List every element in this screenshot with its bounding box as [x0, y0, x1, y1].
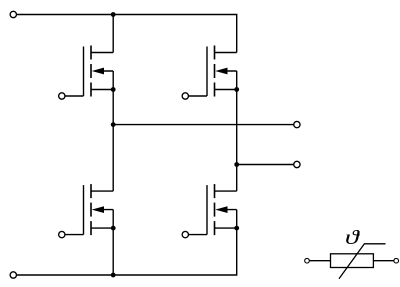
svg-text:ϑ: ϑ [345, 226, 361, 248]
